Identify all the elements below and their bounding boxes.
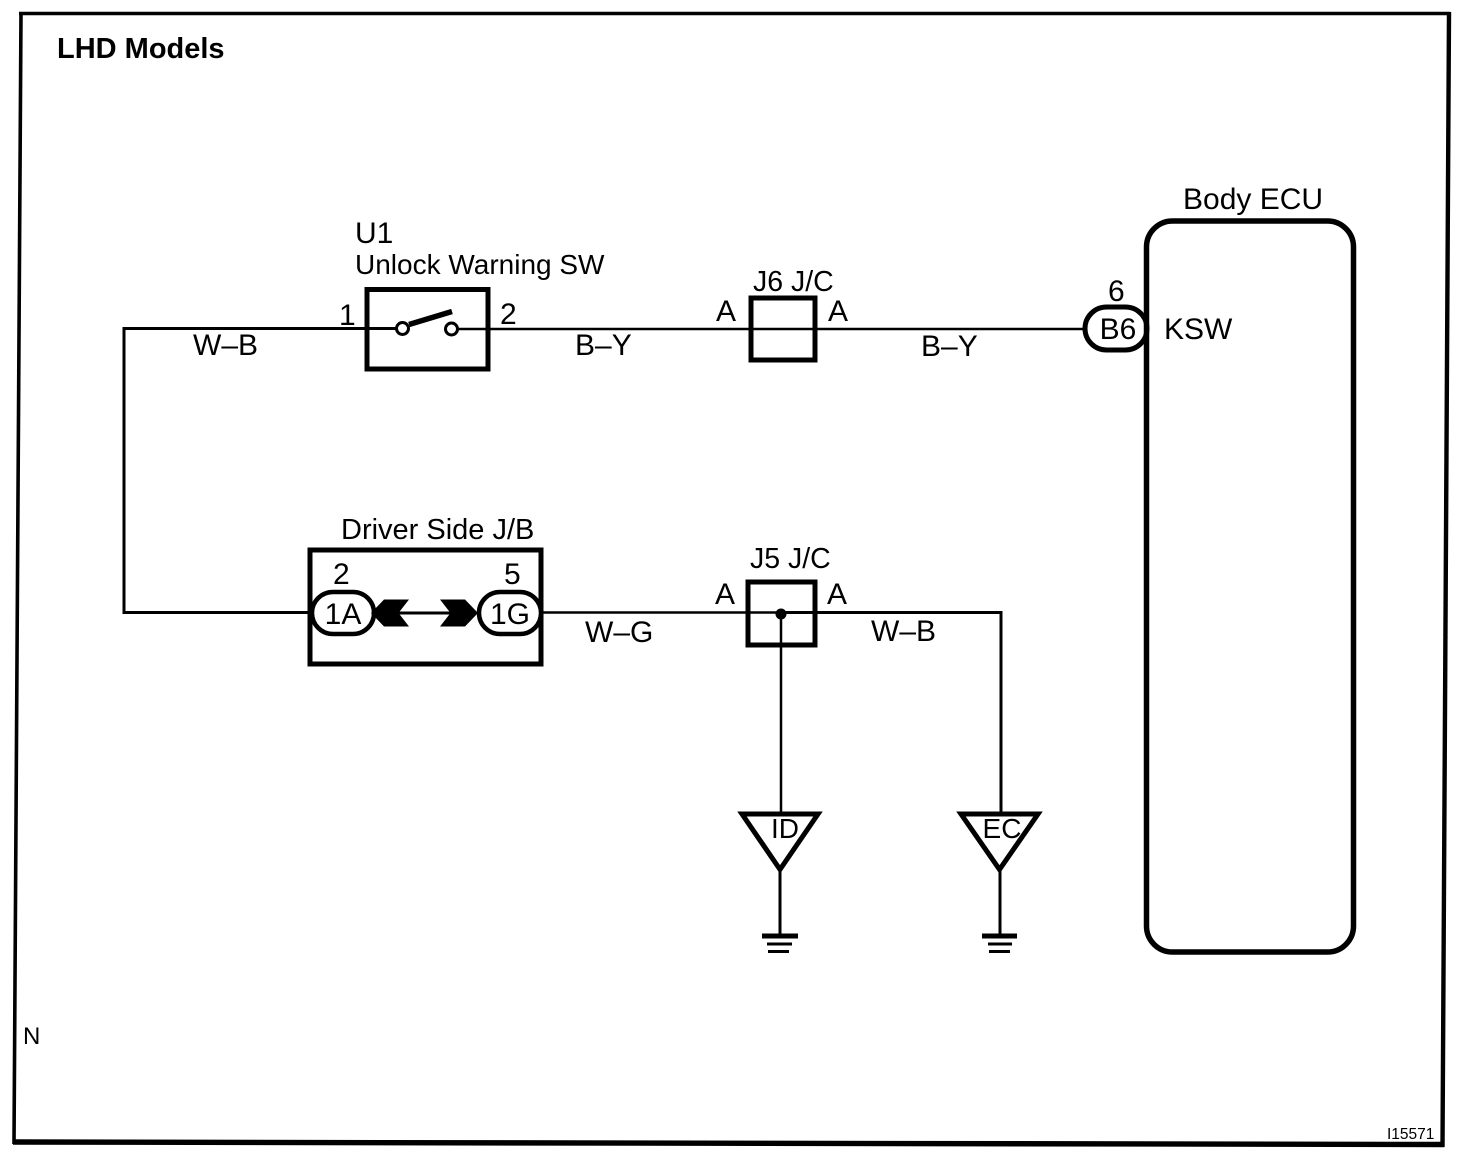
ground symbol under EC <box>982 936 1017 952</box>
svg-text:1A: 1A <box>325 598 362 631</box>
ground symbol under ID <box>762 936 798 952</box>
wire stub below EC <box>999 869 1002 936</box>
svg-text:A: A <box>828 295 848 328</box>
junction block Driver Side J/B <box>310 550 541 664</box>
ground point EC triangle <box>961 813 1038 870</box>
junction connector J6 J/C <box>751 298 815 360</box>
svg-text:A: A <box>715 578 735 611</box>
svg-text:A: A <box>827 578 847 611</box>
svg-text:2: 2 <box>500 298 517 331</box>
switch U1 Unlock Warning SW <box>367 290 488 370</box>
svg-text:B–Y: B–Y <box>575 329 632 362</box>
svg-text:J6 J/C: J6 J/C <box>753 266 834 298</box>
wire W-G from 1G to J5 J/C <box>541 611 781 614</box>
svg-text:W–G: W–G <box>585 616 653 649</box>
wire B-Y from U1 pin 2 through J6 J/C to Body ECU B6 <box>458 328 1087 331</box>
ECU U2 Body ECU box <box>1147 221 1354 952</box>
wire W-B from U1 pin 1 to Driver Side J/B pin 2 (1A) <box>124 329 397 613</box>
ground point ID triangle <box>742 813 818 870</box>
svg-text:W–B: W–B <box>871 615 936 648</box>
connector 1G <box>479 592 541 634</box>
svg-text:Body ECU: Body ECU <box>1183 183 1323 216</box>
svg-text:ID: ID <box>771 813 799 844</box>
link line between arrowheads <box>398 612 451 615</box>
svg-text:1G: 1G <box>490 598 530 631</box>
svg-text:5: 5 <box>504 558 521 591</box>
svg-text:2: 2 <box>333 558 350 591</box>
svg-text:Driver Side J/B: Driver Side J/B <box>341 514 534 546</box>
svg-text:EC: EC <box>983 813 1022 844</box>
wire from J5 junction down to ground ID <box>780 614 783 814</box>
svg-text:Unlock Warning SW: Unlock Warning SW <box>355 249 605 280</box>
svg-text:J5 J/C: J5 J/C <box>750 543 831 575</box>
svg-text:W–B: W–B <box>193 329 258 362</box>
svg-text:6: 6 <box>1108 275 1125 308</box>
junction dot in J5 <box>776 609 787 620</box>
left arrowhead inside J/B <box>371 600 409 627</box>
wire W-B from J5 J/C to ground EC <box>781 613 1001 815</box>
wire stub below ID <box>779 869 782 936</box>
svg-text:B–Y: B–Y <box>921 330 978 363</box>
svg-text:B6: B6 <box>1100 313 1137 346</box>
svg-text:1: 1 <box>339 299 356 332</box>
svg-text:N: N <box>23 1023 40 1050</box>
junction connector J5 J/C <box>748 582 815 645</box>
svg-text:LHD Models: LHD Models <box>57 33 225 65</box>
svg-text:KSW: KSW <box>1164 313 1233 346</box>
connector 1A <box>312 592 374 634</box>
svg-text:I15571: I15571 <box>1387 1126 1434 1143</box>
svg-text:A: A <box>716 295 736 328</box>
svg-text:U1: U1 <box>355 217 393 250</box>
right arrowhead inside J/B <box>440 600 478 627</box>
connector B6 <box>1085 307 1147 350</box>
